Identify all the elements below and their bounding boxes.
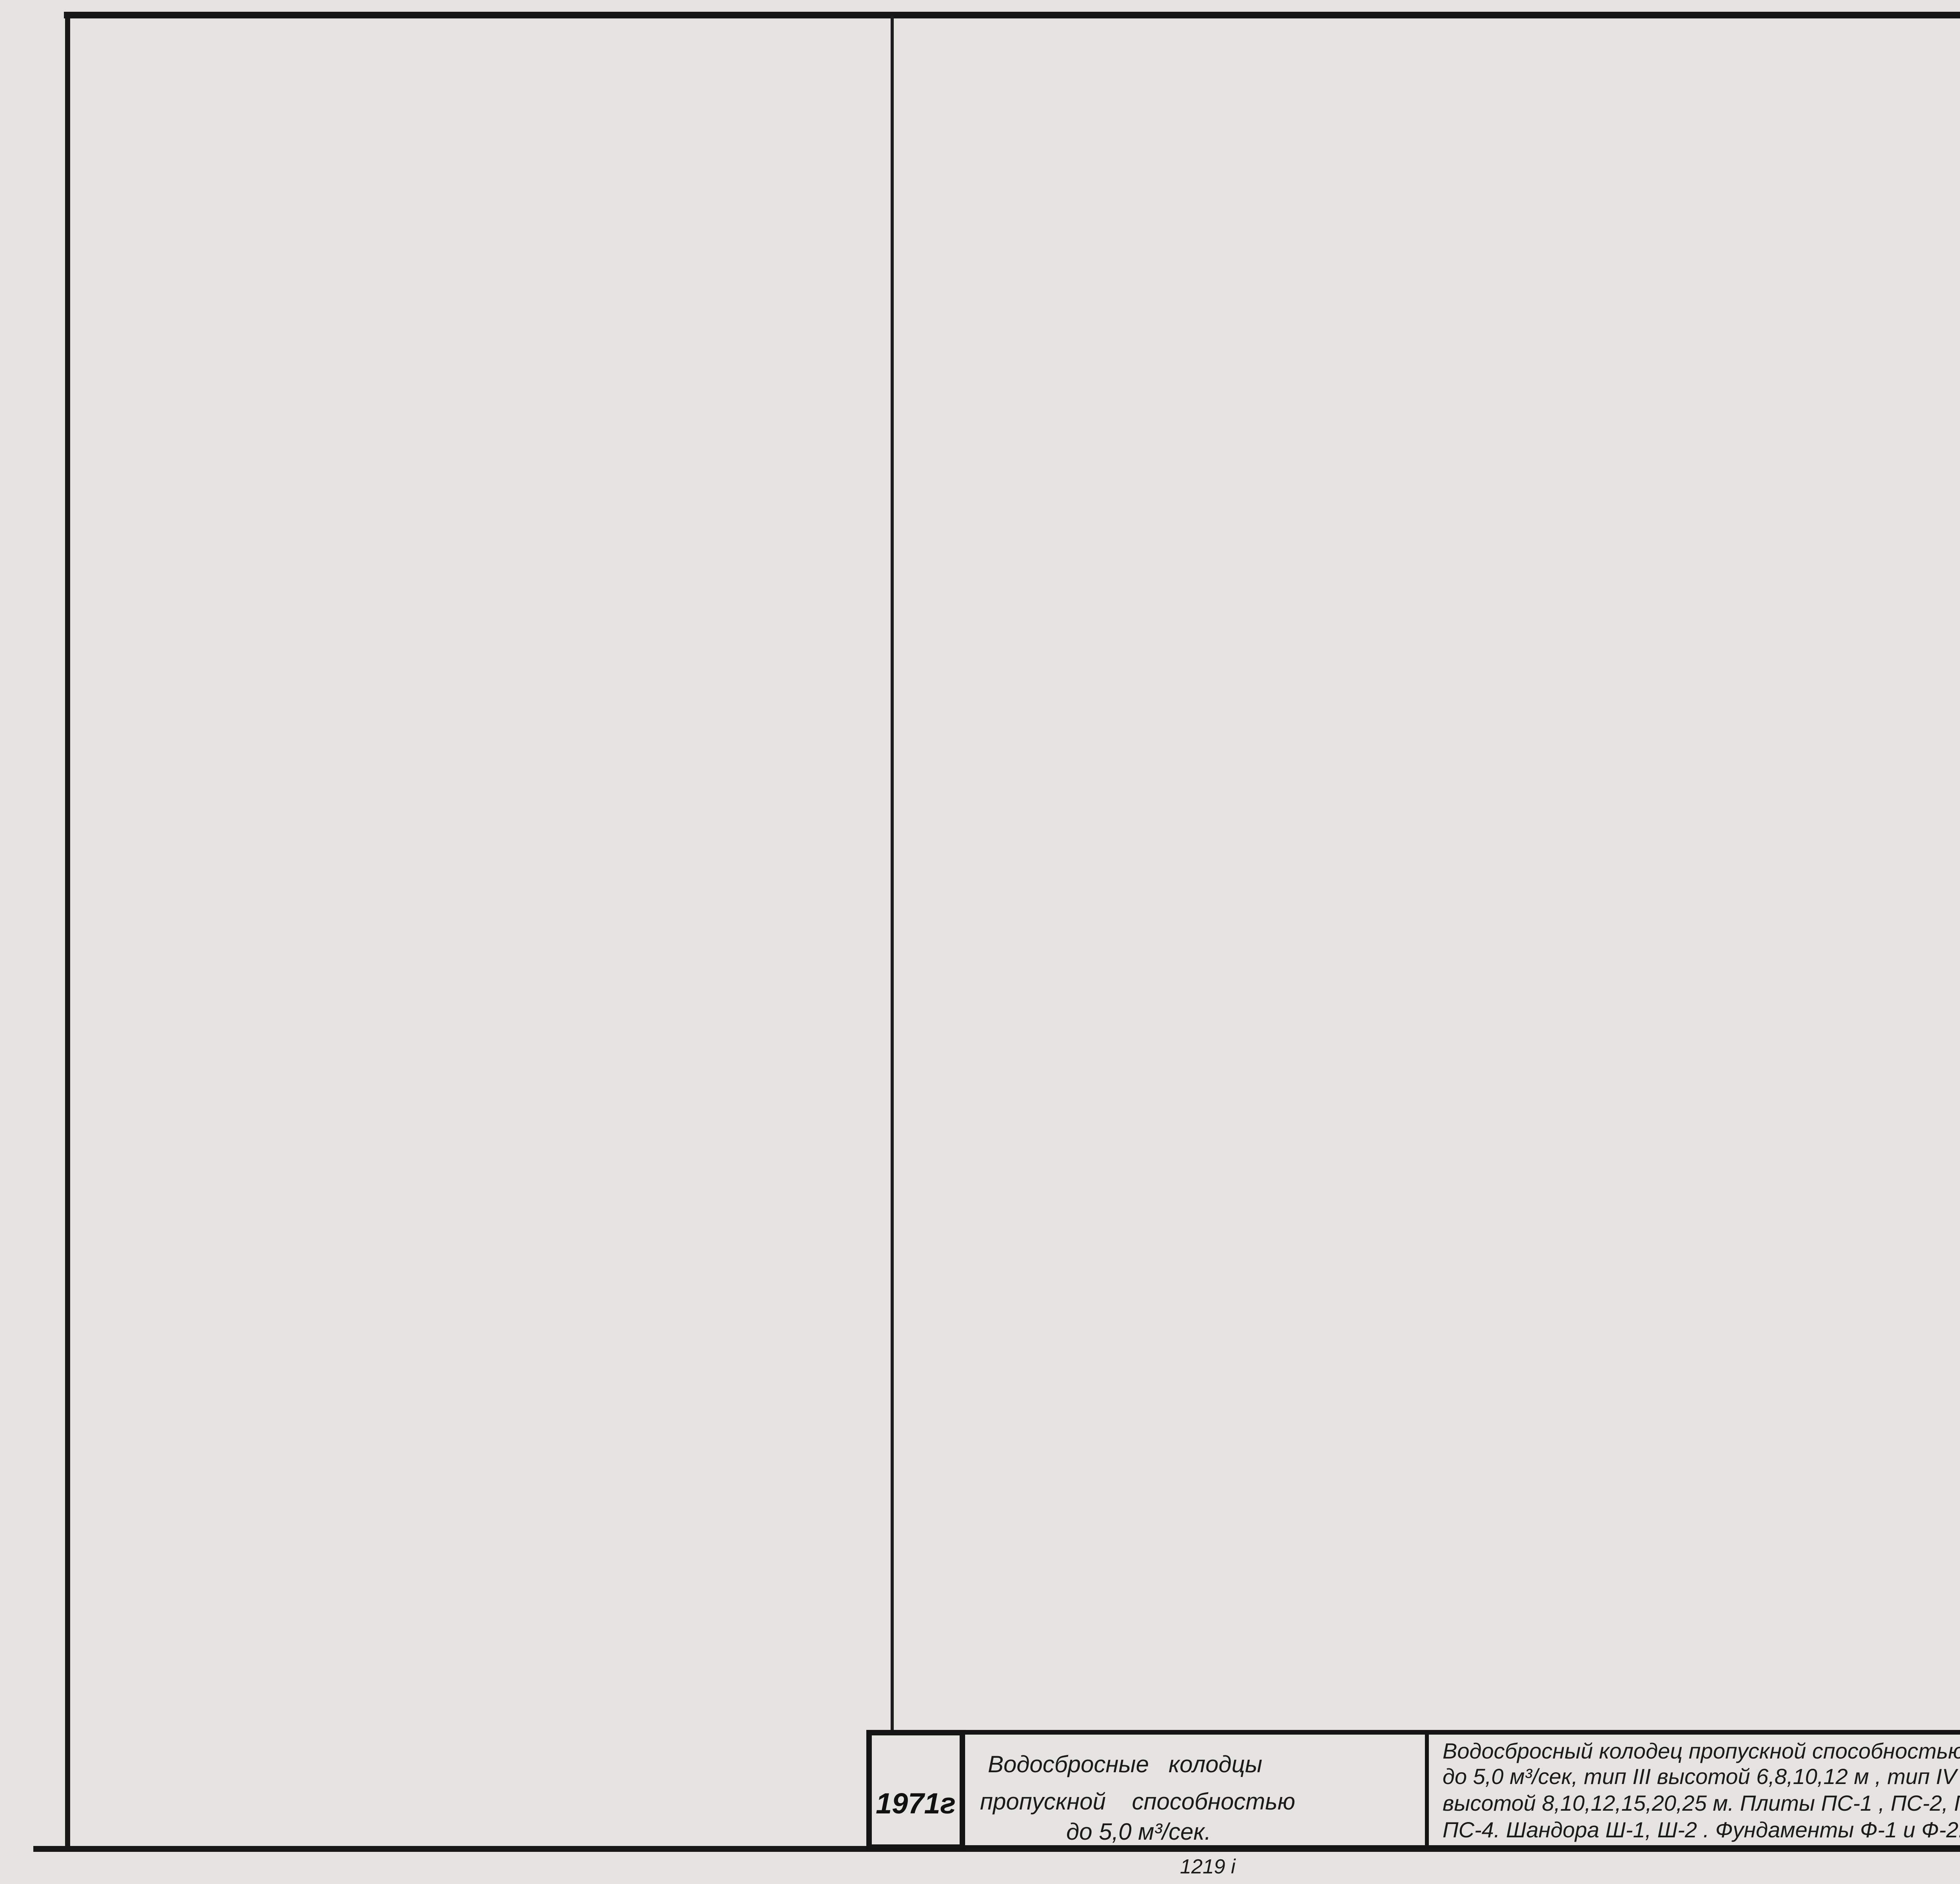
title block top line (869, 1730, 1960, 1734)
svg-text:1971г: 1971г (876, 1787, 956, 1820)
svg-text:1219 і: 1219 і (1180, 1855, 1236, 1878)
svg-text:Водосбросные колодцы: Водосбросные колодцы (988, 1751, 1262, 1777)
svg-text:Водосбросный колодец пропуск: Водосбросный колодец пропускной способно… (1443, 1739, 1960, 1763)
sheet description box (1427, 1733, 1960, 1847)
frame bottom border (33, 1846, 1960, 1852)
project name box (962, 1733, 1427, 1847)
svg-text:до 5,0 м³/сек, тип III высот: до 5,0 м³/сек, тип III высотой 6,8,10,12… (1443, 1764, 1958, 1789)
svg-text:высотой 8,10,12,15,20,25 м. П: высотой 8,10,12,15,20,25 м. Плиты ПС-1 ,… (1443, 1791, 1960, 1815)
year box 1971 (869, 1733, 962, 1847)
svg-text:пропускной способностью: пропускной способностью (980, 1788, 1295, 1815)
frame left border (65, 12, 70, 1851)
frame top border (64, 12, 1960, 18)
svg-text:до 5,0 м³/сек.: до 5,0 м³/сек. (1066, 1819, 1211, 1845)
column divider line (891, 16, 894, 1734)
svg-text:ПС-4. Шандора Ш-1, Ш-2 . Ф: ПС-4. Шандора Ш-1, Ш-2 . Фундаменты Ф-1 … (1443, 1817, 1960, 1842)
TITLE BLOCK (869, 1730, 1960, 1878)
